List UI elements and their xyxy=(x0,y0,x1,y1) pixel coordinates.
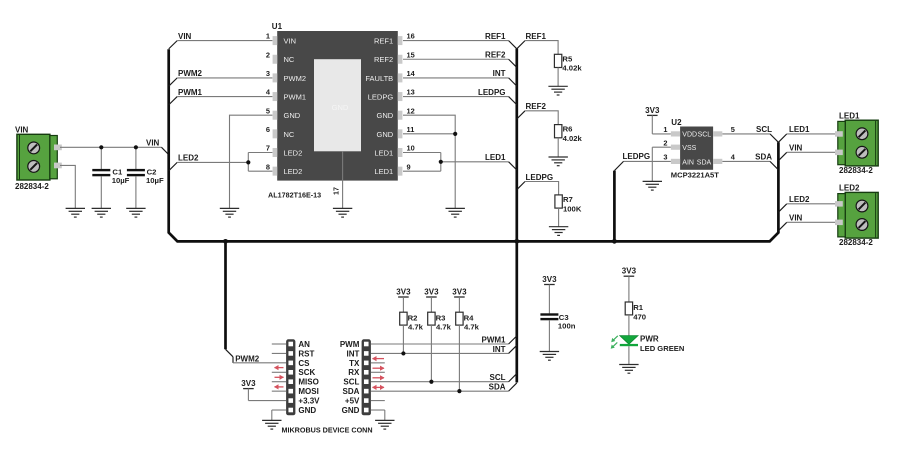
junction dot bus mid branch xyxy=(514,239,519,244)
wire left header GND to ground xyxy=(272,410,286,420)
svg-text:RST: RST xyxy=(298,349,314,358)
svg-text:VSS: VSS xyxy=(682,145,696,152)
svg-text:14: 14 xyxy=(407,69,416,78)
svg-text:LED1: LED1 xyxy=(789,125,810,134)
svg-text:3: 3 xyxy=(266,69,270,78)
svg-text:C2: C2 xyxy=(147,167,157,176)
svg-text:LED2: LED2 xyxy=(178,154,199,163)
svg-text:MIKROBUS DEVICE CONN: MIKROBUS DEVICE CONN xyxy=(282,425,373,434)
svg-text:17: 17 xyxy=(332,187,341,195)
svg-text:VIN: VIN xyxy=(284,37,297,46)
bus entry PWM2 to U1 pin3 xyxy=(169,69,203,86)
power 3V3 to +3.3V pin xyxy=(241,379,286,401)
svg-text:100n: 100n xyxy=(558,322,576,331)
svg-text:470: 470 xyxy=(633,313,646,322)
wire PWM1 to pin 4 xyxy=(177,96,272,98)
svg-text:2: 2 xyxy=(663,139,667,148)
U1 label AL1782T16E-13 xyxy=(268,191,321,200)
svg-text:10: 10 xyxy=(407,144,415,153)
svg-text:PWM2: PWM2 xyxy=(235,354,260,363)
bus branch to mikrobus left header xyxy=(224,241,227,349)
svg-text:2: 2 xyxy=(266,50,270,59)
junction dot R3 xyxy=(429,380,433,384)
IC U2 MCP3221A5T xyxy=(663,118,735,179)
bus entry REF2 xyxy=(509,59,517,67)
red arrow SCK xyxy=(275,375,285,380)
svg-text:GND: GND xyxy=(332,103,349,112)
ground below R7 xyxy=(549,227,568,236)
svg-text:GND: GND xyxy=(377,111,394,120)
wire U2 SCL to bus xyxy=(722,125,772,134)
bus exit VIN wire to LED1 terminal xyxy=(778,144,836,161)
wire U1 pin12/pin11 GND to ground xyxy=(403,115,455,208)
wire REF1 pin16 to bus xyxy=(403,32,509,41)
svg-text:REF2: REF2 xyxy=(485,51,506,60)
resistor R7 100K xyxy=(525,182,582,227)
svg-text:NC: NC xyxy=(284,130,295,139)
bus entry VIN left xyxy=(162,147,169,154)
bus exit VIN wire to LED2 terminal xyxy=(778,214,836,231)
junction dot bus LEDPG branch xyxy=(612,239,617,244)
svg-text:FAULTB: FAULTB xyxy=(365,74,393,83)
ground below left header xyxy=(262,420,281,429)
bus exit REF2 to R6 xyxy=(517,102,547,119)
svg-text:C3: C3 xyxy=(559,313,569,322)
svg-text:9: 9 xyxy=(407,162,411,171)
terminal block VIN 282834-2 xyxy=(15,126,62,192)
svg-text:+3.3V: +3.3V xyxy=(298,396,320,405)
svg-text:CS: CS xyxy=(298,359,310,368)
svg-text:PWM2: PWM2 xyxy=(178,69,203,78)
svg-text:TX: TX xyxy=(349,359,360,368)
junction dot C2/VIN xyxy=(134,145,138,149)
red arrow CS input xyxy=(274,365,284,370)
svg-text:MISO: MISO xyxy=(298,378,318,387)
svg-text:3V3: 3V3 xyxy=(645,106,660,115)
wire VIN to pin 1 xyxy=(177,40,272,42)
ground below U1 pin5 xyxy=(220,208,239,217)
svg-text:282834-2: 282834-2 xyxy=(839,166,873,175)
U1 left pin numbers 1-8 xyxy=(266,32,271,172)
terminal block LED2 282834-2 xyxy=(835,183,878,247)
ground below R5 xyxy=(548,86,567,95)
svg-text:R3: R3 xyxy=(436,313,446,322)
svg-text:LEDPG: LEDPG xyxy=(526,173,554,182)
svg-text:R6: R6 xyxy=(563,125,573,134)
svg-text:PWM1: PWM1 xyxy=(284,92,307,101)
ground below terminal VIN xyxy=(66,208,85,217)
bus branch LEDPG to U2 xyxy=(613,171,616,242)
red arrow INT xyxy=(372,356,384,361)
capacitor C2 10uF xyxy=(127,147,164,208)
capacitor C3 100n xyxy=(540,313,575,352)
svg-text:11: 11 xyxy=(407,125,415,134)
ground below right header xyxy=(375,420,394,429)
svg-text:3V3: 3V3 xyxy=(424,287,439,296)
bus exit LED2 wire xyxy=(778,195,836,212)
resistor R4 4.7k xyxy=(456,312,480,391)
ground below U2 xyxy=(643,181,662,190)
junction dot C1/VIN xyxy=(99,145,103,149)
svg-text:GND: GND xyxy=(298,406,316,415)
svg-text:GND: GND xyxy=(342,406,360,415)
svg-text:VIN: VIN xyxy=(15,126,29,135)
svg-text:5: 5 xyxy=(731,125,735,134)
svg-text:4.02k: 4.02k xyxy=(563,134,583,143)
bus entry REF1 xyxy=(509,41,517,49)
svg-text:7: 7 xyxy=(266,144,270,153)
svg-text:SDA: SDA xyxy=(697,159,712,166)
wire INT pin14 to bus xyxy=(403,69,509,78)
bus branch mid vertical xyxy=(515,49,518,383)
svg-text:SCL: SCL xyxy=(698,132,712,139)
bus exit LED1 wire xyxy=(778,125,836,142)
svg-text:U1: U1 xyxy=(272,22,283,31)
svg-text:REF2: REF2 xyxy=(374,55,393,64)
svg-text:GND: GND xyxy=(284,111,301,120)
svg-text:PWM2: PWM2 xyxy=(284,74,307,83)
U1 pin 17 exposed pad wire xyxy=(332,151,343,208)
svg-text:LEDPG: LEDPG xyxy=(478,88,506,97)
bus entry SCL bottom xyxy=(509,374,517,382)
LED PWR green xyxy=(611,335,685,354)
ground below U1 pin17 xyxy=(333,208,352,217)
svg-text:R5: R5 xyxy=(562,54,573,63)
svg-text:100K: 100K xyxy=(563,204,582,213)
svg-text:LED1: LED1 xyxy=(374,148,393,157)
bus entry PWM1 bottom xyxy=(509,336,517,344)
bus entry PWM1 to U1 pin4 xyxy=(169,88,203,105)
bus entry INT xyxy=(509,78,517,86)
capacitor C1 10uF xyxy=(92,147,129,208)
wire stubs left header xyxy=(272,344,286,391)
wire PWM1 header to bus xyxy=(371,335,509,344)
svg-text:LED2: LED2 xyxy=(789,195,810,204)
ground below C1 xyxy=(92,208,111,217)
ground below C3 xyxy=(540,352,559,361)
svg-text:LED2: LED2 xyxy=(839,183,860,192)
svg-text:3V3: 3V3 xyxy=(241,379,256,388)
power 3V3 for R1 xyxy=(622,267,637,302)
svg-text:LED2: LED2 xyxy=(284,148,303,157)
svg-text:282834-2: 282834-2 xyxy=(15,182,49,191)
U1 right pin numbers 16-9 xyxy=(407,32,416,172)
wire LED to ground xyxy=(628,346,630,364)
red arrow SDA bidirectional xyxy=(372,385,385,390)
bus entry SDA xyxy=(770,161,778,169)
junction dot LED2 xyxy=(246,160,250,164)
label MIKROBUS DEVICE CONN xyxy=(282,425,373,434)
svg-text:SCL: SCL xyxy=(756,125,772,134)
bus entry LED2 xyxy=(169,154,199,171)
ground below U1 pins 11/12 xyxy=(446,208,465,217)
wire PWM2 to CS pin xyxy=(233,362,286,364)
wire stubs right header TX RX +5V xyxy=(371,363,385,401)
svg-text:GND: GND xyxy=(377,130,394,139)
svg-text:3V3: 3V3 xyxy=(396,287,411,296)
wire INT header to bus xyxy=(371,345,509,354)
svg-text:4.7k: 4.7k xyxy=(436,323,452,332)
wire right header GND to ground xyxy=(371,410,385,420)
wire LEDPG to U2 AIN xyxy=(623,152,671,161)
power 3V3 for R2 xyxy=(396,287,411,312)
svg-text:5: 5 xyxy=(266,106,270,115)
svg-text:LEDPG: LEDPG xyxy=(368,92,394,101)
svg-text:PWR: PWR xyxy=(640,335,659,344)
svg-text:MCP3221A5T: MCP3221A5T xyxy=(671,170,719,179)
bus entry LEDPG U2 xyxy=(614,161,623,170)
svg-text:MOSI: MOSI xyxy=(298,387,318,396)
power 3V3 for U2 xyxy=(645,106,671,134)
svg-text:1: 1 xyxy=(663,125,667,134)
svg-text:AL1782T16E-13: AL1782T16E-13 xyxy=(268,191,321,200)
svg-text:REF1: REF1 xyxy=(374,37,393,46)
svg-text:LEDPG: LEDPG xyxy=(623,152,651,161)
resistor R2 4.7k xyxy=(400,312,424,353)
svg-text:INT: INT xyxy=(493,345,506,354)
svg-text:SCL: SCL xyxy=(490,373,506,382)
junction dot bus left branch xyxy=(223,239,228,244)
svg-text:U2: U2 xyxy=(671,118,682,127)
bus entry LED1 xyxy=(509,162,517,170)
svg-text:PWM: PWM xyxy=(340,340,360,349)
svg-text:SCL: SCL xyxy=(343,378,359,387)
svg-text:SDA: SDA xyxy=(755,153,772,162)
svg-text:12: 12 xyxy=(407,106,415,115)
svg-text:RX: RX xyxy=(348,368,360,377)
red arrow RX xyxy=(373,375,385,380)
svg-text:INT: INT xyxy=(347,349,360,358)
bus main VIN/signal bus xyxy=(169,49,779,241)
IC U1 AL1782T16E-13 xyxy=(272,22,403,181)
svg-text:3V3: 3V3 xyxy=(622,267,637,276)
bus entry INT bottom xyxy=(509,345,517,353)
power 3V3 for R4 xyxy=(452,287,467,312)
svg-text:4.02k: 4.02k xyxy=(562,64,582,73)
red arrow MISO xyxy=(274,384,284,389)
svg-text:AIN: AIN xyxy=(682,159,694,166)
svg-text:R4: R4 xyxy=(464,313,475,322)
wire REF2 pin15 to bus xyxy=(403,51,509,60)
svg-text:R1: R1 xyxy=(633,303,644,312)
svg-text:LED2: LED2 xyxy=(284,167,303,176)
svg-text:VIN: VIN xyxy=(178,32,192,41)
svg-text:SCK: SCK xyxy=(298,368,315,377)
bus entry PWM2 to left header xyxy=(226,349,260,363)
bus entry LEDPG xyxy=(509,97,517,105)
svg-text:13: 13 xyxy=(407,88,415,97)
resistor R3 4.7k xyxy=(428,312,452,382)
svg-text:4.7k: 4.7k xyxy=(408,323,424,332)
mikrobus right header xyxy=(340,339,371,415)
wire LED2 to pins 7 and 8 xyxy=(177,153,272,172)
resistor R1 470 xyxy=(625,302,646,336)
wire U1 pin5 GND to ground xyxy=(230,115,273,208)
svg-text:REF2: REF2 xyxy=(526,102,547,111)
U1 right pin names xyxy=(365,37,393,177)
bus entry SDA bottom xyxy=(509,383,517,391)
bus entry SCL xyxy=(770,134,778,142)
svg-text:3V3: 3V3 xyxy=(452,287,467,296)
svg-text:LED1: LED1 xyxy=(374,167,393,176)
red arrow TX xyxy=(373,366,385,371)
svg-text:3V3: 3V3 xyxy=(542,275,557,284)
svg-text:282834-2: 282834-2 xyxy=(839,238,873,247)
resistor R6 4.02k xyxy=(525,111,583,157)
svg-text:REF1: REF1 xyxy=(526,32,547,41)
svg-text:LED1: LED1 xyxy=(839,112,860,121)
U1 left pin names xyxy=(284,37,307,177)
power 3V3 for R3 xyxy=(424,287,439,312)
svg-text:LED1: LED1 xyxy=(485,153,506,162)
svg-text:INT: INT xyxy=(493,69,506,78)
wire U2 VSS to ground xyxy=(652,147,671,181)
bus exit REF1 to R5 xyxy=(517,32,547,49)
svg-text:4.7k: 4.7k xyxy=(464,323,480,332)
svg-text:AN: AN xyxy=(298,340,310,349)
svg-text:6: 6 xyxy=(266,125,270,134)
svg-text:1: 1 xyxy=(266,32,270,41)
svg-text:VDD: VDD xyxy=(682,132,697,139)
wire LEDPG pin13 to bus xyxy=(403,88,509,97)
wire terminal pin2 to ground xyxy=(60,165,75,208)
net label VIN at bus entry xyxy=(146,139,160,148)
svg-text:10µF: 10µF xyxy=(112,176,130,185)
junction dot R2 xyxy=(401,351,405,355)
mikrobus left header xyxy=(286,339,320,415)
svg-text:VIN: VIN xyxy=(789,214,803,223)
ground below C2 xyxy=(126,208,145,217)
ground below LED xyxy=(619,365,638,374)
power 3V3 for C3 xyxy=(542,275,557,314)
wire VIN from terminal pin1 xyxy=(60,146,162,148)
junction dot R4 xyxy=(457,389,461,393)
svg-text:8: 8 xyxy=(266,162,270,171)
svg-text:PWM1: PWM1 xyxy=(178,88,203,97)
svg-text:SDA: SDA xyxy=(489,383,506,392)
svg-text:+5V: +5V xyxy=(345,396,360,405)
svg-text:15: 15 xyxy=(407,50,415,59)
svg-text:REF1: REF1 xyxy=(485,32,506,41)
svg-text:NC: NC xyxy=(284,55,295,64)
wire PWM2 to pin 3 xyxy=(177,77,272,79)
bus exit LEDPG to R7 xyxy=(517,173,553,190)
resistor R5 4.02k xyxy=(525,41,582,87)
svg-text:R2: R2 xyxy=(408,313,418,322)
svg-text:16: 16 xyxy=(407,32,415,41)
wire LED1 pins 10/9 to bus xyxy=(403,153,509,172)
svg-text:VIN: VIN xyxy=(146,139,160,148)
junction dot GND pins 11/12 xyxy=(453,132,457,136)
svg-text:PWM1: PWM1 xyxy=(482,335,507,344)
bus entry VIN to U1 pin1 xyxy=(169,32,192,49)
svg-text:VIN: VIN xyxy=(789,144,803,153)
svg-text:LED GREEN: LED GREEN xyxy=(640,344,684,353)
svg-text:10µF: 10µF xyxy=(146,176,164,185)
ground below R6 xyxy=(549,157,568,166)
wire SCL header to bus xyxy=(371,373,509,382)
junction dot LED1 xyxy=(439,160,443,164)
svg-text:R7: R7 xyxy=(563,195,573,204)
terminal block LED1 282834-2 xyxy=(835,112,878,175)
svg-text:3: 3 xyxy=(663,153,667,162)
svg-text:SDA: SDA xyxy=(343,387,360,396)
wire U2 SDA to bus xyxy=(722,153,772,162)
wire SDA header to bus xyxy=(371,383,509,392)
svg-text:C1: C1 xyxy=(112,167,123,176)
